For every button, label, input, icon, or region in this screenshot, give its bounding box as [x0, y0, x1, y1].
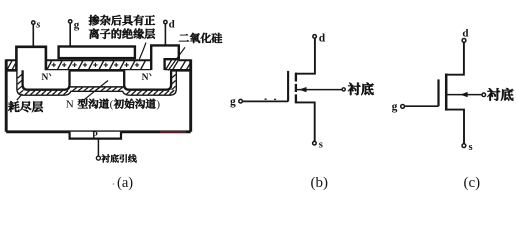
label: N-type channel (initial channel) — [66, 99, 161, 111]
depletion layer hatched band — [17, 70, 176, 95]
channel bar (c) — [445, 74, 448, 111]
label: depletion layer — [8, 101, 43, 112]
N channel strip bottom line (a) — [70, 86, 125, 88]
pointer line from channel label to channel — [84, 81, 108, 100]
gate electrode bar (c) — [437, 79, 439, 106]
svg-text:g: g — [392, 101, 398, 113]
P substrate body box (a) — [6, 59, 191, 131]
svg-text:s: s — [469, 142, 473, 153]
stray red speck — [112, 183, 114, 185]
substrate lead with arrow (b) — [297, 87, 346, 92]
channel bar segments (b) — [295, 73, 297, 104]
wire: source lead (c) — [447, 110, 464, 144]
silicon dioxide layer top edge — [6, 59, 191, 61]
substrate lead with arrow (c) — [447, 92, 485, 97]
node s terminal lead (a) — [32, 20, 41, 47]
label: substrate 衬底 (c) — [487, 88, 513, 101]
svg-text:N: N — [42, 73, 49, 83]
svg-text:d: d — [319, 33, 326, 45]
svg-text:(a): (a) — [117, 175, 133, 191]
svg-text:(b): (b) — [311, 175, 329, 191]
node s terminal (c) — [462, 142, 473, 153]
red watermark mark on bottom edge — [160, 131, 186, 133]
wire: drain lead (b) — [295, 39, 315, 74]
node d terminal lead (a) — [164, 18, 175, 45]
source metal contact (a) — [16, 47, 46, 71]
drain metal contact (a) — [151, 45, 179, 70]
label: insulating layer with positive ions after doping — [89, 15, 155, 39]
oxide layer right hatched segment — [166, 60, 191, 70]
svg-text:s: s — [319, 140, 323, 151]
pointer line from SiO2 label to right oxide — [168, 47, 185, 70]
gate electrode plate (a) — [59, 47, 135, 59]
MOSFET symbol (c): drain terminal d — [462, 27, 468, 42]
pointer line from insulating-layer label to oxide — [139, 43, 146, 60]
node g terminal (b) — [230, 96, 242, 108]
svg-text:N: N — [66, 99, 74, 111]
svg-text:g: g — [74, 19, 80, 31]
node s terminal (b) — [313, 140, 323, 151]
wire: drain lead (c) — [447, 43, 464, 75]
N+ drain well (a) — [124, 70, 171, 89]
node g terminal lead (a) — [69, 19, 80, 46]
svg-text:): ) — [156, 99, 160, 111]
oxide layer with positive ions (hatched, + marks) — [47, 61, 145, 70]
substrate lead wire and terminal (a) — [96, 139, 100, 161]
svg-text:s: s — [35, 20, 40, 31]
svg-text:(: ( — [110, 99, 114, 111]
wire: gate lead (b) — [242, 99, 288, 101]
wire: gate lead (c) — [405, 105, 439, 107]
substrate contact box P (a) — [70, 130, 121, 140]
node g terminal (c) — [392, 101, 405, 113]
oxide layer left hatched segment — [7, 61, 16, 69]
svg-text:g: g — [230, 96, 236, 108]
wire: source lead (b) — [295, 102, 314, 141]
svg-text:(c): (c) — [464, 175, 481, 191]
svg-text:d: d — [462, 27, 468, 39]
label: silicon dioxide — [179, 33, 222, 43]
svg-text:N: N — [142, 73, 149, 83]
label: substrate lead wire — [101, 154, 136, 162]
MOSFET symbol (b): drain terminal d — [313, 33, 326, 45]
label: substrate 衬底 (b) — [348, 83, 374, 95]
N+ source well (a) — [23, 70, 70, 89]
pointer line from depletion-layer label to band — [17, 94, 23, 100]
svg-text:P: P — [92, 130, 98, 140]
svg-text:d: d — [169, 18, 175, 30]
gate electrode bar (b) — [287, 71, 289, 102]
